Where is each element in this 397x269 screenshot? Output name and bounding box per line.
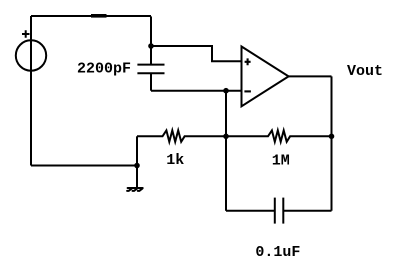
ground bbox=[127, 188, 143, 191]
node inverting input branch bbox=[223, 134, 229, 140]
wire vertical ground node down to ground symbol bbox=[136, 166, 138, 189]
voltage source V1 bbox=[16, 30, 46, 70]
wire output vertical down to C2 bbox=[331, 76, 333, 210]
op-amp U1 bbox=[242, 47, 289, 107]
node C1 top junction bbox=[148, 43, 154, 49]
node output feedback junction bbox=[329, 134, 335, 140]
node inverting input junction bbox=[223, 88, 229, 94]
wire left vertical through source down to bottom bbox=[30, 16, 32, 166]
wire op-amp output bbox=[289, 75, 332, 77]
svg-text:Vout: Vout bbox=[347, 63, 383, 80]
svg-text:0.1uF: 0.1uF bbox=[255, 244, 300, 261]
wire C1 branch vertical from top wire to junction bbox=[150, 16, 152, 46]
wire inverting input horizontal bbox=[151, 90, 242, 92]
wire top horizontal from source to C1 branch bbox=[31, 15, 151, 17]
svg-text:1k: 1k bbox=[166, 152, 184, 169]
wire vertical from R1/R2 node down to C2 bbox=[225, 136, 227, 211]
node ground junction bbox=[134, 163, 140, 169]
svg-text:2200pF: 2200pF bbox=[77, 61, 131, 78]
resistor R2 1M bbox=[226, 130, 332, 141]
svg-text:1M: 1M bbox=[272, 152, 290, 169]
capacitor C1 2200pF bbox=[137, 46, 164, 91]
wire vertical ground node up to R1 bbox=[136, 136, 138, 165]
wire from C1 junction right then down to non-inverting input bbox=[151, 46, 242, 61]
capacitor C2 0.1uF bbox=[226, 198, 332, 224]
resistor R1 1k bbox=[137, 130, 226, 141]
wire vertical from inverting input down to R1/R2 node bbox=[225, 91, 227, 137]
wire overlap dash on top wire bbox=[91, 14, 107, 18]
wire bottom horizontal from source to ground node bbox=[31, 165, 137, 167]
